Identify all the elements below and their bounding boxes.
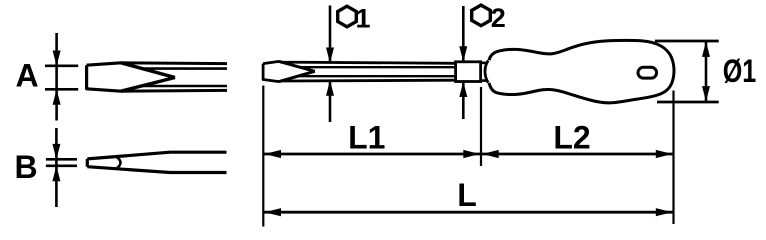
- diameter extension line bottom: [657, 101, 719, 104]
- shank top inner line: [300, 66, 456, 68]
- dimension A bottom arrow: [53, 89, 61, 105]
- svg-text:L: L: [457, 177, 477, 213]
- svg-text:Ø1: Ø1: [723, 53, 757, 89]
- blade A V bottom facet: [121, 78, 175, 92]
- dimension L1 right arrow: [463, 150, 480, 158]
- dimension B top arrow: [52, 144, 60, 160]
- bolster neck stub bottom: [481, 79, 487, 82]
- dimension diameter vertical line: [705, 41, 708, 102]
- blade B grind arc: [116, 157, 121, 169]
- dimension hex2 upper arrow (down): [459, 46, 467, 62]
- svg-text:1: 1: [355, 4, 370, 34]
- dimension B bottom tick: [46, 165, 77, 168]
- svg-text:L1: L1: [348, 119, 385, 155]
- dimension hex2 lower arrow (up): [459, 82, 467, 98]
- bolster neck stub top: [481, 62, 487, 65]
- svg-text:L2: L2: [553, 119, 590, 155]
- dimension hex1 lower line: [329, 81, 332, 123]
- dimension hex2 upper line: [462, 6, 465, 62]
- blade A shank top inner line: [142, 67, 227, 70]
- extension line middle (L1/L2): [480, 87, 482, 166]
- dimension diameter bottom arrow (down): [702, 86, 710, 102]
- dimension line B vertical: [55, 128, 58, 207]
- handle hanging hole: [638, 67, 657, 78]
- blade A outline: [87, 63, 121, 91]
- dimension hex1 lower arrow (up): [326, 80, 334, 96]
- dimension B top tick: [46, 158, 77, 161]
- dimension L1 left arrow: [265, 150, 282, 158]
- bolster: [456, 62, 481, 82]
- blade tip outline: [263, 61, 279, 81]
- hex symbol 1: [338, 6, 357, 27]
- shank bottom inner line: [299, 75, 456, 77]
- dimension A bottom tick: [45, 88, 78, 91]
- handle front cap arc: [485, 61, 488, 83]
- dimension A top arrow: [53, 51, 61, 67]
- diameter extension line top: [655, 40, 719, 43]
- extension line left (L/L1): [262, 86, 264, 227]
- dimension hex1 upper arrow (down): [326, 48, 334, 64]
- blade V top facet: [279, 61, 315, 71]
- dimension L left arrow: [265, 208, 282, 216]
- dimension L right arrow: [656, 208, 673, 216]
- dimension diameter top arrow (up): [702, 41, 710, 57]
- hex symbol 2: [472, 5, 491, 26]
- dimension L2 left arrow: [482, 150, 499, 158]
- blade A V top facet: [121, 63, 175, 78]
- dimension L line: [263, 211, 673, 214]
- svg-text:2: 2: [491, 3, 506, 33]
- handle outline: [489, 40, 674, 102]
- svg-text:A: A: [15, 58, 38, 94]
- dimension hex1 upper line: [329, 6, 332, 63]
- shank bottom outer line: [279, 80, 456, 81]
- svg-text:B: B: [14, 149, 37, 185]
- dimension A top tick: [45, 65, 78, 68]
- extension line right (L2/L): [672, 91, 674, 225]
- blade V bottom facet: [279, 71, 315, 81]
- dimension line A vertical: [55, 33, 58, 121]
- blade B wedge outline: [87, 152, 226, 172]
- dimension L1 line: [263, 153, 481, 156]
- dimension L2 line: [481, 153, 674, 156]
- dimension B bottom arrow: [52, 166, 60, 182]
- shank top outer line: [279, 61, 456, 63]
- blade A top outer line: [121, 61, 227, 65]
- dimension hex2 lower line: [462, 82, 465, 119]
- blade A bottom outer line: [121, 89, 227, 93]
- blade A shank bottom inner line: [142, 85, 227, 88]
- dimension L2 right arrow: [656, 150, 673, 158]
